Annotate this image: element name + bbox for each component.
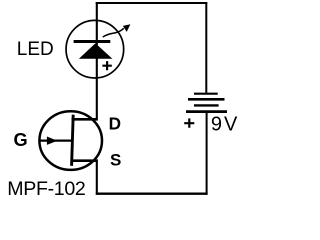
- battery plate 2 (long): [188, 98, 225, 101]
- svg-text:LED: LED: [17, 39, 54, 60]
- LED polarity plus: [102, 61, 111, 70]
- wire top rail: [96, 2, 208, 4]
- transistor channel bar: [72, 115, 74, 166]
- battery B1 plate 1 (top, short): [194, 93, 218, 95]
- svg-text:9V: 9V: [211, 114, 239, 136]
- svg-text:S: S: [110, 151, 121, 170]
- wire right vertical from battery to bottom rail: [206, 112, 208, 195]
- svg-text:D: D: [109, 113, 121, 133]
- battery plate 3 (short): [194, 104, 219, 106]
- LED light arrow (curved shaft): [103, 28, 124, 37]
- wire source lead horizontal (JFET channel to corner): [71, 159, 98, 162]
- battery plate 4 (bottom, long): [186, 110, 227, 113]
- LED circle: [66, 20, 124, 78]
- wire drain lead horizontal (to JFET channel): [72, 118, 98, 121]
- LED triangle (anode, pointing up): [79, 43, 113, 59]
- wire source lead vertical (down to bottom rail): [96, 160, 98, 195]
- gate arrowhead: [47, 137, 58, 145]
- wire right vertical from top rail to battery: [205, 2, 207, 93]
- battery polarity plus: [184, 118, 194, 127]
- transistor U1 body circle (MPF-102 JFET): [39, 111, 102, 170]
- LED light arrowhead: [123, 24, 130, 32]
- wire drain lead vertical (top rail through LED down to D corner): [96, 2, 98, 119]
- svg-text:G: G: [14, 130, 28, 150]
- svg-text:MPF-102: MPF-102: [7, 178, 85, 200]
- gate line: [39, 140, 71, 142]
- wire bottom rail: [96, 193, 208, 195]
- LED cathode bar: [74, 40, 111, 43]
